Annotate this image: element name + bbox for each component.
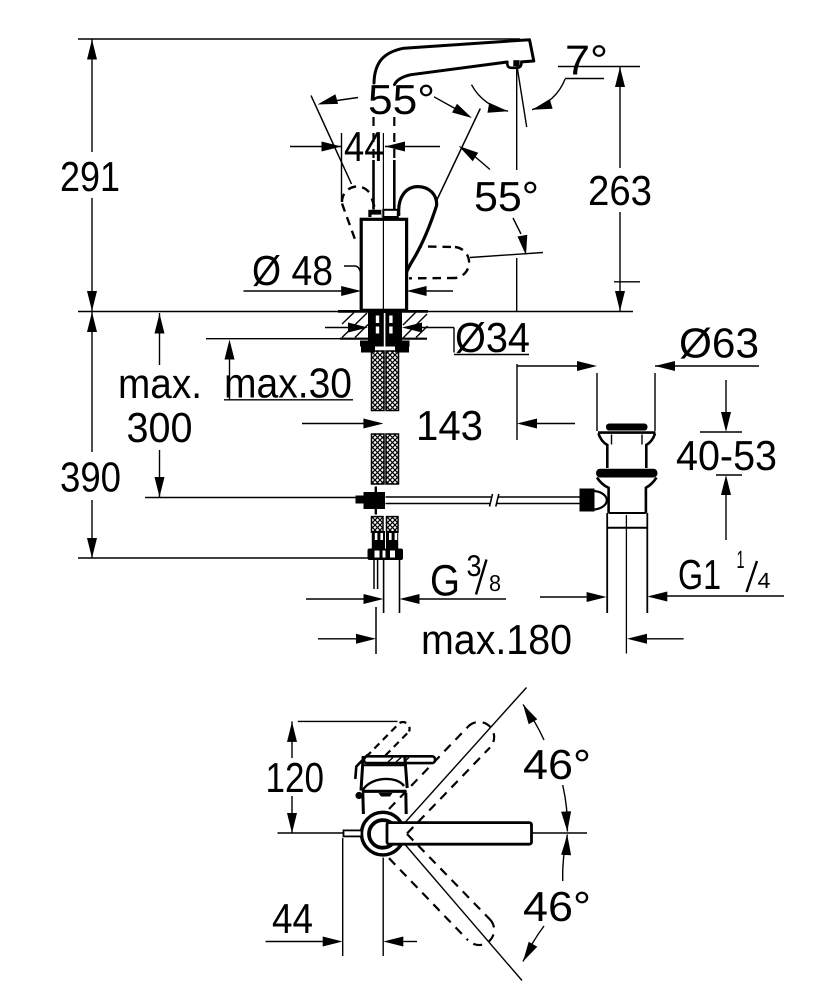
svg-text:44: 44 xyxy=(272,895,313,942)
spout bar (solid position) xyxy=(387,823,532,845)
dimension diameter 48 xyxy=(244,290,342,292)
dimension max.300 xyxy=(159,313,161,365)
svg-text:40-53: 40-53 xyxy=(676,432,777,479)
svg-text:120: 120 xyxy=(266,754,325,801)
dimension 390 xyxy=(91,312,93,452)
svg-text:Ø34: Ø34 xyxy=(455,314,530,361)
dashed spout capsule (down 46 deg) xyxy=(389,834,494,945)
svg-text:1: 1 xyxy=(737,546,745,574)
max.300 bottom reference line xyxy=(145,497,356,499)
collar line xyxy=(362,790,407,793)
raised lever (dashed) xyxy=(366,722,410,764)
svg-text:Ø 48: Ø 48 xyxy=(252,247,333,294)
drain tailpipe xyxy=(607,513,647,613)
dimension max.180 xyxy=(318,638,356,640)
svg-text:44: 44 xyxy=(344,123,385,170)
left indicator tab xyxy=(344,830,362,836)
connector flange nut xyxy=(368,549,404,561)
svg-text:46°: 46° xyxy=(523,883,591,930)
solid handle lever xyxy=(399,187,437,275)
7 deg tilted stream line xyxy=(517,66,527,127)
hose connector nuts xyxy=(372,531,385,550)
dimension 120 xyxy=(291,721,293,758)
svg-text:max.: max. xyxy=(118,360,202,407)
faucet centerline xyxy=(382,133,384,311)
svg-text:max.180: max.180 xyxy=(421,616,572,663)
raised lever butt end (solid) xyxy=(355,755,368,780)
svg-text:263: 263 xyxy=(588,167,652,214)
svg-text:55°: 55° xyxy=(474,173,539,220)
7 deg leader xyxy=(565,78,604,80)
dashed spout capsule (up 46 deg) xyxy=(389,722,494,834)
dimension 143 xyxy=(302,423,364,425)
46 deg axis line (down) xyxy=(405,845,522,981)
46 deg arc (upper) xyxy=(523,705,544,741)
deck / countertop top line xyxy=(78,311,338,313)
collar end screw dot xyxy=(355,792,362,799)
46 deg axis line (up) xyxy=(405,688,527,823)
svg-text:390: 390 xyxy=(60,454,121,501)
7 deg angle arcs xyxy=(472,85,509,112)
svg-text:143: 143 xyxy=(416,402,483,449)
svg-text:46°: 46° xyxy=(523,741,591,788)
handle joint band xyxy=(368,210,381,217)
spout axis centerline (bottom fig) xyxy=(278,832,346,834)
svg-text:7°: 7° xyxy=(565,37,608,84)
aerator bump xyxy=(507,62,521,68)
390 bottom reference line xyxy=(78,557,368,559)
body below collar xyxy=(361,793,365,814)
diameter 48 leader hook xyxy=(344,266,361,275)
dimension G1 1/4 xyxy=(540,596,587,598)
svg-text:G1: G1 xyxy=(678,551,721,598)
water stream vertical reference xyxy=(516,67,518,170)
pop-up rod lower end xyxy=(374,560,378,654)
120 top reference line xyxy=(298,720,398,722)
dimension 291 xyxy=(91,39,93,152)
dimension diameter 34 xyxy=(325,327,348,329)
spout body xyxy=(374,40,534,85)
knob xyxy=(606,424,648,431)
svg-text:291: 291 xyxy=(60,153,120,200)
flange seal band xyxy=(596,469,658,478)
rod pivot block at faucet xyxy=(364,492,386,509)
drain centerline xyxy=(625,515,627,654)
flared top xyxy=(598,431,656,434)
spout column lines xyxy=(374,117,395,210)
46 deg arc (lower) xyxy=(563,835,568,882)
deck hatching xyxy=(342,313,428,339)
dimension diameter 63 xyxy=(517,365,577,367)
svg-text:4: 4 xyxy=(758,568,771,593)
dimension G 3/8 xyxy=(306,598,364,600)
braided supply hoses xyxy=(372,351,385,411)
mounting flange under deck xyxy=(360,341,410,347)
swivel bearing circles xyxy=(362,812,405,855)
svg-text:8: 8 xyxy=(489,570,501,596)
solid handle axis extension (line B) xyxy=(421,109,481,235)
dimension 40-53 xyxy=(700,431,742,433)
white centerline slit through shank xyxy=(384,313,386,350)
handle cap (front view trapezoid) xyxy=(361,756,407,791)
faucet body xyxy=(361,219,406,310)
pop-up rod horizontal xyxy=(386,494,581,507)
dashed handle axis extension (line A) xyxy=(311,96,352,185)
dimension 263 xyxy=(558,66,640,68)
svg-text:Ø63: Ø63 xyxy=(679,320,759,367)
svg-text:55°: 55° xyxy=(368,76,435,123)
lower body xyxy=(597,478,657,514)
front handle position reference line xyxy=(470,253,543,258)
aerator outlet (black) xyxy=(513,60,519,66)
svg-text:G: G xyxy=(430,557,460,606)
svg-text:3: 3 xyxy=(467,550,482,583)
dashed handle capsule (front/horizontal position) xyxy=(409,246,469,278)
deck bottom line xyxy=(206,338,340,340)
threaded shank below deck xyxy=(368,313,402,342)
dimension 44 (top figure) xyxy=(290,146,342,148)
lever bar (solid) xyxy=(364,756,435,763)
dimension 44 (bottom fig) xyxy=(266,941,323,943)
svg-text:300: 300 xyxy=(127,404,193,451)
top extension line (spout height ref) xyxy=(78,38,520,40)
supply tube ends below flange xyxy=(384,560,400,613)
dashed handle capsule (rear position) xyxy=(342,187,375,244)
rod pivot at drain xyxy=(580,489,595,512)
